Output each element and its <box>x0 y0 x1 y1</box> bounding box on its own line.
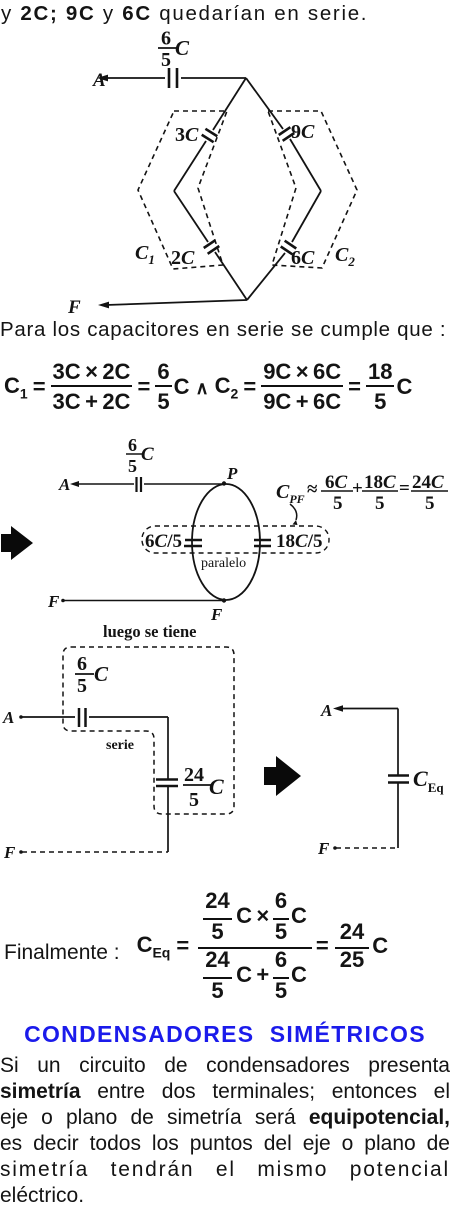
wire vertical <box>167 717 169 779</box>
svg-text:6: 6 <box>77 653 87 675</box>
svg-text:24: 24 <box>184 764 204 786</box>
svg-text:A: A <box>58 475 70 494</box>
ellipse node P to F <box>192 484 260 600</box>
svg-text:C: C <box>175 36 190 60</box>
capacitor 24/5C plates <box>156 778 178 781</box>
svg-text:CPF: CPF <box>276 481 305 506</box>
svg-text:≈: ≈ <box>307 479 318 500</box>
wire diamond lower-right edge <box>292 191 321 242</box>
svg-text:5: 5 <box>375 493 385 514</box>
svg-text:paralelo: paralelo <box>201 556 246 571</box>
svg-text:9C: 9C <box>291 121 315 143</box>
node F arrowhead <box>98 302 109 309</box>
blue heading <box>0 1021 450 1048</box>
dashed box paralelo <box>142 526 329 553</box>
svg-text:F: F <box>317 839 330 858</box>
wire diamond upper-right edge <box>246 78 283 129</box>
capacitor 6/5C plates <box>135 477 137 492</box>
svg-text:F: F <box>3 843 16 862</box>
svg-text:+: + <box>352 478 363 499</box>
label 6/5 C <box>77 653 109 697</box>
svg-text:18C/5: 18C/5 <box>276 531 322 552</box>
svg-text:6C: 6C <box>291 247 315 269</box>
capacitor CEq plates <box>388 774 409 777</box>
wire F dashed bottom <box>22 851 168 853</box>
svg-text:18C: 18C <box>364 472 396 493</box>
svg-text:5: 5 <box>189 789 199 811</box>
node A arrowhead right <box>333 705 343 711</box>
svg-text:6: 6 <box>161 28 171 50</box>
FIGURE 2 : parallel reduction with ellipse <box>0 430 450 625</box>
svg-text:5: 5 <box>77 675 87 697</box>
dashed loop C1 <box>138 111 227 269</box>
dashed loop C2 <box>268 111 357 268</box>
svg-text:F: F <box>47 592 60 611</box>
svg-text:luego se tiene: luego se tiene <box>103 622 196 641</box>
capacitor 3C plates <box>202 129 218 142</box>
paragraph <box>0 1053 450 1209</box>
text: series rule <box>0 318 446 342</box>
svg-text:C: C <box>209 774 224 799</box>
svg-text:6C/5: 6C/5 <box>145 531 182 552</box>
wire A to P <box>76 483 134 485</box>
svg-text:F: F <box>67 297 81 318</box>
formula CPF <box>276 472 444 514</box>
node F dot bottom <box>222 598 226 602</box>
node F dot <box>19 850 23 854</box>
label 6/5 C <box>128 435 154 476</box>
node A dot <box>19 715 23 719</box>
node F dot <box>61 599 65 603</box>
node P dot <box>222 481 226 485</box>
node F dot right <box>333 846 337 850</box>
svg-text:24C: 24C <box>412 472 444 493</box>
svg-text:P: P <box>226 464 238 483</box>
svg-text:6C: 6C <box>325 472 348 493</box>
svg-text:=: = <box>399 478 410 499</box>
FIGURE 3 : series reduction and equivalent <box>0 620 450 882</box>
wire A to top node <box>104 77 165 79</box>
svg-text:2C: 2C <box>171 247 195 269</box>
svg-text:3C: 3C <box>175 124 199 146</box>
Finalmente formula <box>4 890 388 1003</box>
svg-text:A: A <box>2 708 14 727</box>
node A arrowhead <box>97 75 108 82</box>
wire diamond upper-left edge <box>213 78 246 130</box>
capacitor 6/5C plates <box>168 68 171 88</box>
node A arrowhead <box>70 481 79 487</box>
capacitor 6C plates <box>281 241 297 255</box>
capacitor 18C/5 plates <box>254 539 271 542</box>
capacitor 2C plates <box>204 240 220 254</box>
wire diamond lower-left edge <box>174 191 208 242</box>
svg-text:5: 5 <box>333 493 343 514</box>
svg-text:6: 6 <box>128 435 137 455</box>
svg-text:5: 5 <box>128 456 137 476</box>
wire F right dashed <box>336 847 398 849</box>
svg-text:C: C <box>94 662 109 686</box>
wire vertical right <box>397 709 399 776</box>
capacitor 6C/5 plates <box>185 539 202 542</box>
big arrow 2 <box>264 756 301 796</box>
svg-text:C2: C2 <box>335 244 355 269</box>
svg-text:A: A <box>92 70 106 91</box>
svg-text:A: A <box>320 701 332 720</box>
leader curve CPF to box <box>290 504 297 520</box>
svg-text:5: 5 <box>161 49 171 71</box>
svg-text:C1: C1 <box>135 242 155 267</box>
capacitor 9C plates <box>279 127 295 141</box>
wire F bottom <box>62 600 222 602</box>
wire A horizontal <box>22 716 75 718</box>
svg-text:CEq: CEq <box>413 766 444 795</box>
big arrow <box>1 526 33 560</box>
FIGURE 1 : diamond bridge of capacitors <box>0 25 450 320</box>
svg-text:5: 5 <box>425 493 435 514</box>
label 24/5 C <box>184 764 224 811</box>
capacitor 6/5C plates <box>78 708 81 727</box>
wire bottom node to F <box>106 300 247 305</box>
label 6/5 C <box>161 28 190 72</box>
top text line <box>1 2 368 26</box>
dashed L outline <box>63 647 234 814</box>
svg-text:serie: serie <box>106 738 134 753</box>
formula row 1 <box>4 361 412 414</box>
wire A right circuit <box>336 708 398 710</box>
